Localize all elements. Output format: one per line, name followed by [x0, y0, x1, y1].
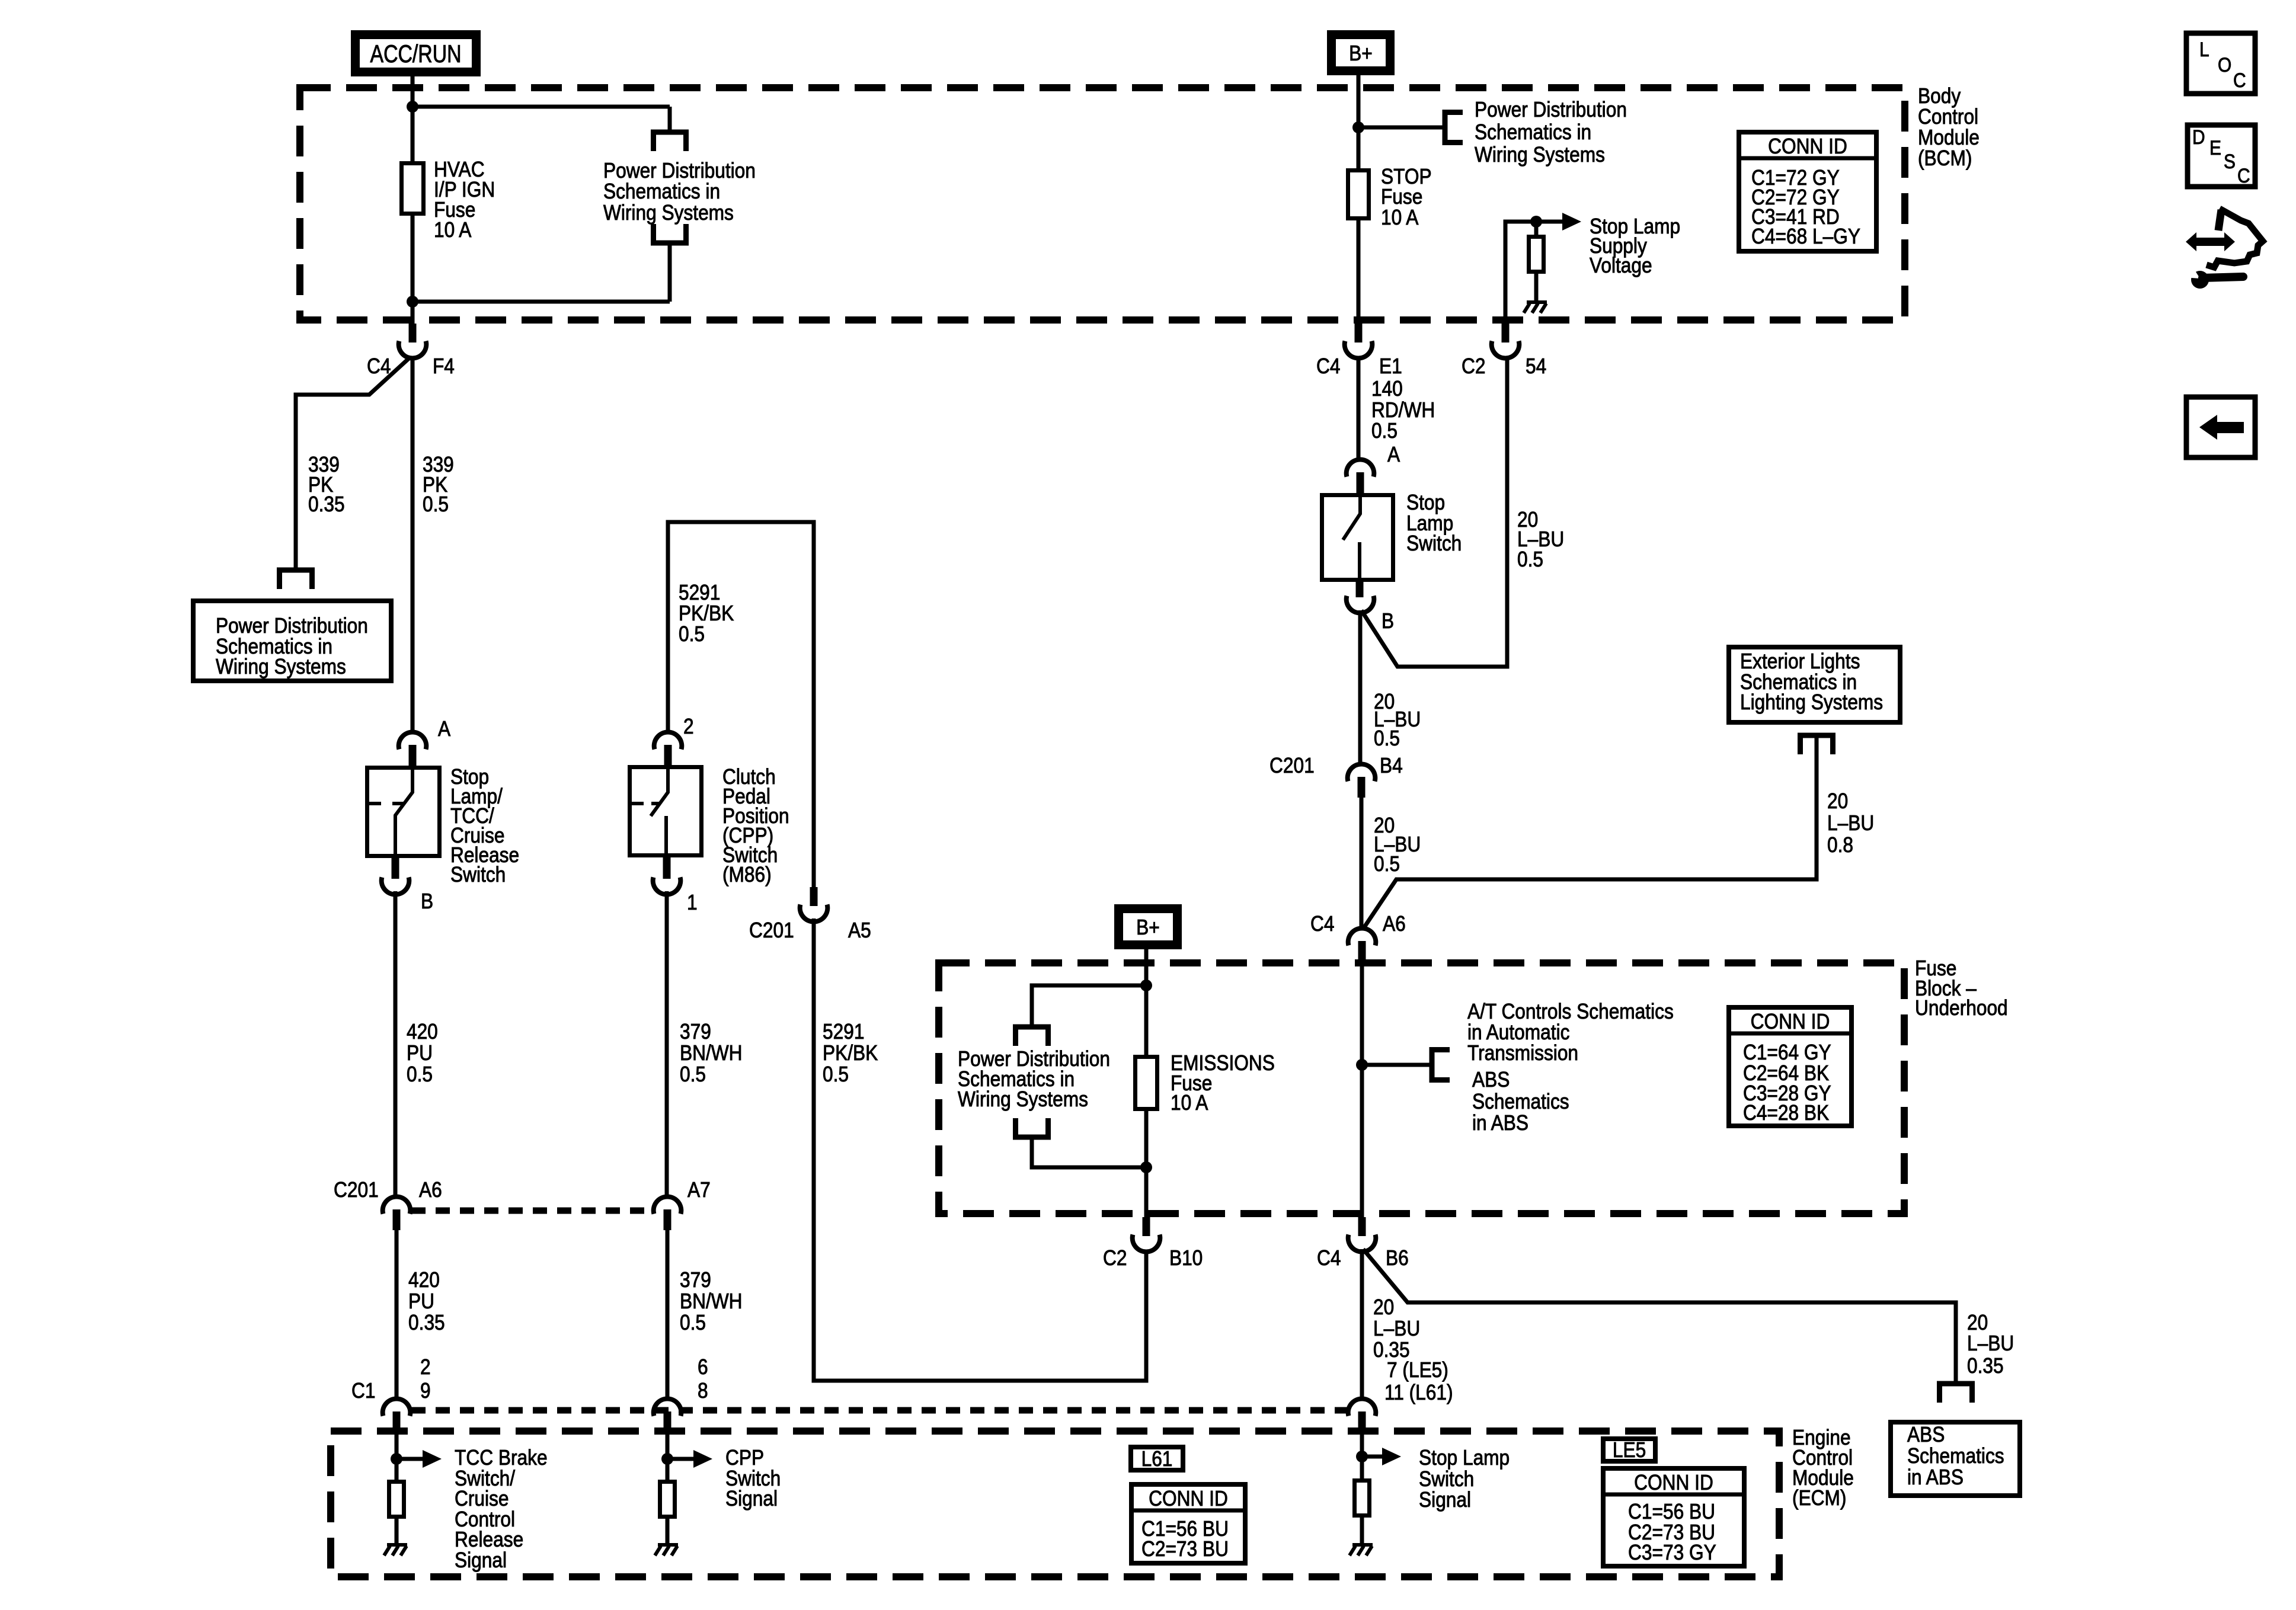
svg-text:C4=28 BK: C4=28 BK — [1743, 1101, 1830, 1125]
svg-text:Wiring Systems: Wiring Systems — [216, 655, 346, 678]
svg-text:O: O — [2218, 53, 2231, 76]
signal arrow CPP Switch Signal — [667, 1457, 693, 1461]
wire: 20 L-BU 0.5 branch from B to BCM pin 54 — [1361, 358, 1507, 667]
svg-text:Underhood: Underhood — [1915, 996, 2008, 1020]
svg-text:11 (L61): 11 (L61) — [1384, 1381, 1453, 1404]
svg-text:0.5: 0.5 — [823, 1062, 849, 1086]
svg-text:2: 2 — [683, 715, 694, 738]
connector 1 socket arc — [653, 878, 681, 895]
wire: B+ down to emissions fuse — [1144, 949, 1149, 1057]
svg-text:CONN ID: CONN ID — [1634, 1471, 1713, 1494]
svg-text:0.5: 0.5 — [1517, 548, 1543, 571]
wire: into ECM to CPP signal node — [666, 1432, 670, 1480]
connector C2/B10 pin — [1143, 1217, 1150, 1236]
svg-text:BN/WH: BN/WH — [680, 1041, 743, 1065]
svg-text:in ABS: in ABS — [1907, 1465, 1964, 1489]
junction node A/T controls branch — [1356, 1059, 1368, 1071]
off-page bracket (lower) Power Distribution in fuse block — [1016, 1118, 1048, 1137]
fuse: HVAC I/P IGN Fuse 10 A — [402, 164, 424, 214]
signal arrow Stop Lamp Switch Signal — [1362, 1455, 1382, 1459]
svg-text:A6: A6 — [1383, 912, 1406, 936]
wire: 140 RD/WH 0.5 from E1 to stop lamp switch — [1357, 358, 1361, 461]
svg-text:F4: F4 — [433, 354, 455, 378]
svg-text:C2: C2 — [1462, 354, 1485, 378]
off-page bracket below exterior lights box — [1801, 735, 1833, 754]
svg-text:C4: C4 — [1317, 1246, 1341, 1270]
svg-text:0.5: 0.5 — [1371, 419, 1398, 443]
connector C4/A6 pin — [1358, 941, 1366, 962]
svg-text:0.5: 0.5 — [679, 622, 705, 646]
switch fixed contact bar (right segment) — [651, 802, 661, 805]
svg-text:C4: C4 — [367, 354, 391, 378]
connector 2 pin — [664, 745, 672, 767]
svg-text:E: E — [2209, 136, 2221, 159]
junction node TCC brake signal — [391, 1453, 402, 1465]
junction node CPP signal — [661, 1453, 673, 1465]
svg-text:A7: A7 — [687, 1178, 711, 1202]
connector C1 pin (cavity 9) — [393, 1411, 401, 1432]
svg-text:C4=68 L–GY: C4=68 L–GY — [1751, 225, 1860, 248]
wire: STOP fuse output to BCM edge — [1357, 218, 1361, 324]
svg-text:Schematics: Schematics — [1907, 1444, 2004, 1468]
svg-text:S: S — [2224, 150, 2236, 172]
svg-text:6: 6 — [698, 1355, 708, 1379]
switch blade (closed) inside TCC switch — [395, 768, 412, 857]
off-page bracket above Power Distribution box (left) — [280, 570, 312, 589]
svg-text:Schematics: Schematics — [1472, 1090, 1569, 1113]
wire: branch right to power distribution bracket — [412, 105, 670, 109]
fuse: STOP Fuse 10 A — [1348, 171, 1369, 219]
svg-text:BN/WH: BN/WH — [680, 1289, 743, 1313]
connector 2 arc above CPP switch — [654, 732, 682, 750]
module box: Body Control Module (BCM) dashed outline — [300, 88, 1905, 320]
ground: CPP signal ground in ECM — [658, 1543, 678, 1547]
svg-text:C2: C2 — [1103, 1246, 1127, 1270]
svg-text:2: 2 — [420, 1355, 431, 1379]
connector C2/54 pin — [1502, 324, 1510, 343]
svg-text:7 (LE5): 7 (LE5) — [1387, 1358, 1448, 1382]
module box: Fuse Block - Underhood dashed outline — [939, 963, 1904, 1214]
icon: double arrow — [2186, 232, 2235, 251]
connector B socket arc — [382, 878, 410, 895]
svg-text:(BCM): (BCM) — [1918, 146, 1972, 170]
svg-text:Switch: Switch — [1406, 532, 1462, 555]
switch box: Stop Lamp/TCC/Cruise Release Switch — [367, 768, 440, 856]
junction node above emissions fuse — [1140, 980, 1152, 991]
module box: Engine Control Module (ECM) dashed outline — [331, 1431, 1779, 1577]
svg-text:0.35: 0.35 — [308, 492, 345, 516]
switch box: Stop Lamp Switch — [1322, 495, 1393, 580]
wire: emissions fuse output to fuse block edge — [1144, 1109, 1149, 1217]
connector C4/F4 pin — [409, 324, 417, 343]
connector C2/54 socket arc — [1492, 341, 1520, 359]
dotted connector line C1 across ECM — [411, 1407, 1349, 1414]
svg-text:10 A: 10 A — [1171, 1091, 1208, 1115]
svg-text:Switch: Switch — [450, 863, 506, 886]
svg-text:A: A — [1387, 443, 1400, 466]
svg-text:LE5: LE5 — [1613, 1438, 1646, 1462]
svg-text:54: 54 — [1526, 354, 1546, 378]
svg-text:C4: C4 — [1310, 912, 1334, 936]
svg-text:0.5: 0.5 — [680, 1311, 706, 1334]
wire: branch left to power distribution bracket (fuse block) — [1032, 985, 1146, 1027]
connector C2/B10 socket arc — [1133, 1235, 1160, 1252]
junction node supply voltage — [1530, 216, 1542, 228]
wire: bracket return to main feed — [668, 243, 672, 302]
svg-text:140: 140 — [1371, 377, 1403, 401]
wire: 379 BN/WH 0.5 down to C201 A7 — [665, 891, 669, 1198]
box: Power Distribution Schematics in Wiring Systems (left) — [193, 601, 391, 681]
fuse: EMISSIONS Fuse 10 A — [1136, 1057, 1157, 1109]
junction node below B+ — [1352, 121, 1364, 133]
svg-text:Wiring Systems: Wiring Systems — [603, 201, 734, 225]
connector C201/B4 arc — [1348, 764, 1376, 782]
svg-text:B+: B+ — [1349, 41, 1373, 65]
svg-text:Wiring Systems: Wiring Systems — [1475, 143, 1605, 167]
connector C4/B6 socket arc — [1348, 1235, 1376, 1252]
switch lower contact vertical — [1358, 542, 1361, 581]
ground: stop lamp signal ground in ECM — [1352, 1543, 1373, 1547]
switch fixed contact bar (left segment) — [369, 802, 381, 805]
table: BCM CONN ID (C1=72 GY ...) — [1739, 132, 1876, 251]
connector C1 pin (cavity 8) — [664, 1411, 671, 1432]
svg-text:20: 20 — [1373, 1295, 1394, 1319]
svg-text:B: B — [1382, 609, 1394, 633]
svg-text:D: D — [2192, 126, 2205, 148]
wire: 20 L-BU 0.35 from B6 down to ECM — [1360, 1249, 1364, 1400]
svg-text:C: C — [2233, 69, 2246, 91]
svg-text:420: 420 — [408, 1268, 440, 1292]
junction node at top of HVAC fuse branch — [407, 101, 418, 113]
wire: branch to A/T controls bracket — [1362, 1063, 1432, 1067]
svg-text:Stop Lamp: Stop Lamp — [1419, 1446, 1510, 1470]
svg-text:(M86): (M86) — [722, 863, 772, 886]
svg-text:A: A — [438, 717, 450, 741]
connector C201/A5 pin — [810, 887, 818, 906]
svg-text:L–BU: L–BU — [1827, 811, 1874, 835]
ground: TCC signal ground in ECM — [387, 1543, 407, 1547]
svg-text:B6: B6 — [1386, 1246, 1409, 1270]
box: Exterior Lights Schematics in Lighting Systems — [1729, 647, 1900, 722]
connector C4/B6 pin — [1358, 1217, 1366, 1236]
connector A arc above TCC switch — [399, 732, 427, 750]
wire: resistor to BCM internal ground — [1534, 274, 1539, 302]
svg-text:10 A: 10 A — [434, 218, 472, 242]
off-page bracket (upper) Power Distribution in BCM — [654, 132, 686, 151]
svg-text:L: L — [2199, 38, 2209, 60]
svg-text:C1: C1 — [351, 1379, 375, 1403]
switch blade (open) inside stop lamp switch — [1343, 495, 1360, 540]
connector C201/A5 socket arc — [800, 905, 828, 922]
wire: stop lamp supply voltage sense from pin 54 — [1505, 222, 1562, 343]
tag box: LE5 — [1603, 1439, 1655, 1461]
connector B pin below stop lamp switch — [1356, 581, 1364, 597]
svg-text:Signal: Signal — [1419, 1488, 1471, 1512]
wire: resistor to ground — [1360, 1518, 1364, 1545]
svg-text:420: 420 — [407, 1020, 438, 1044]
junction node below HVAC fuse — [407, 296, 418, 308]
connector A pin — [409, 745, 417, 767]
wire: junction down to sense resistor — [1534, 222, 1539, 237]
off-page bracket above ABS box — [1940, 1384, 1972, 1403]
svg-text:PK/BK: PK/BK — [823, 1041, 878, 1065]
resistor: CPP signal pull-up — [660, 1482, 675, 1517]
off-page bracket Power Distribution (BCM right) — [1445, 113, 1463, 143]
svg-text:CONN ID: CONN ID — [1149, 1487, 1228, 1510]
box: ABS Schematics in ABS — [1891, 1422, 2020, 1496]
switch fixed contact bar (left segment) — [631, 802, 644, 805]
connector B socket arc — [1347, 596, 1374, 613]
tag box: L61 — [1131, 1447, 1183, 1470]
wire: 20 L-BU 0.5 from B4 down to fuse block A6 — [1360, 798, 1364, 930]
signal arrow TCC Brake Switch — [396, 1457, 423, 1461]
wire: ACC/RUN feed down into BCM — [411, 76, 415, 164]
svg-text:ACC/RUN: ACC/RUN — [370, 40, 462, 68]
svg-text:Lighting Systems: Lighting Systems — [1740, 690, 1883, 714]
wire: 20 L-BU 0.5 from B down to C201 B4 — [1358, 610, 1363, 766]
switch box: Clutch Pedal Position (CPP) Switch (M86) — [630, 767, 702, 856]
connector C201/A7 pin — [664, 1209, 671, 1230]
wire: 20 L-BU 0.35 branch to ABS — [1363, 1249, 1956, 1384]
svg-text:0.8: 0.8 — [1827, 833, 1853, 857]
svg-text:Signal: Signal — [455, 1548, 507, 1572]
wire: 5291 PK/BK from A5 down, across to emissions fuse leg — [814, 918, 1146, 1381]
signal arrow Stop Lamp Supply Voltage — [1562, 213, 1581, 231]
icon: back arrow button — [2186, 397, 2255, 457]
svg-text:Schematics in: Schematics in — [1475, 120, 1591, 144]
svg-text:C: C — [2237, 164, 2250, 187]
connector A pin — [1357, 472, 1364, 494]
off-page bracket (upper) Power Distribution in fuse block — [1016, 1027, 1048, 1046]
svg-text:C3=73 GY: C3=73 GY — [1628, 1541, 1716, 1564]
svg-text:0.5: 0.5 — [1374, 726, 1400, 750]
svg-text:Signal: Signal — [725, 1487, 778, 1510]
svg-text:0.35: 0.35 — [1967, 1354, 2004, 1378]
resistor: stop lamp supply sense (BCM) — [1529, 237, 1544, 272]
icon: part outline polyline — [2218, 210, 2221, 231]
table: Fuse Block CONN ID (C1=64 GY ...) — [1729, 1007, 1851, 1126]
svg-text:L61: L61 — [1141, 1447, 1173, 1471]
svg-text:C201: C201 — [334, 1178, 379, 1202]
svg-text:B4: B4 — [1380, 754, 1403, 777]
wire: branch to power distribution bracket (BCM) — [1358, 126, 1445, 130]
svg-text:E1: E1 — [1379, 354, 1402, 378]
wire: A6 into fuse block to junction — [1360, 962, 1364, 1067]
svg-text:in ABS: in ABS — [1472, 1111, 1528, 1135]
svg-text:B: B — [421, 889, 433, 913]
connector C4/A6 arc (fuse block) — [1348, 929, 1376, 946]
icon: wrench — [2191, 271, 2209, 289]
wire: into ECM to stop lamp signal node — [1360, 1432, 1364, 1480]
svg-text:10 A: 10 A — [1381, 206, 1419, 229]
connector 1 pin below CPP switch — [663, 857, 671, 879]
wire: fuse output down to BCM edge — [411, 213, 415, 324]
wire: bracket return to fuse output — [1032, 1137, 1146, 1167]
connector ECM pin arc (stop lamp switch signal) — [1348, 1399, 1376, 1416]
power feed box ACC/RUN — [356, 35, 477, 72]
wire: 379 BN/WH 0.5 from C201 to ECM C1 — [666, 1230, 670, 1400]
table: L61 CONN ID — [1131, 1484, 1245, 1563]
svg-text:Voltage: Voltage — [1590, 254, 1652, 277]
svg-text:9: 9 — [420, 1379, 431, 1403]
junction node below emissions fuse — [1140, 1161, 1152, 1173]
resistor: stop lamp signal pull-up (ECM) — [1355, 1481, 1370, 1516]
connector C1 arc (CPP signal) — [654, 1399, 682, 1416]
connector C201/A6 arc — [383, 1197, 411, 1214]
svg-text:L–BU: L–BU — [1967, 1331, 2014, 1355]
wire: C4 branch diagonal to 339 PK 0.35 — [296, 357, 411, 570]
connector ECM pin 7/11 — [1358, 1411, 1366, 1432]
wire: resistor to ground — [666, 1519, 670, 1545]
wire: down to C4/B6 — [1360, 1065, 1364, 1217]
svg-text:CONN ID: CONN ID — [1768, 135, 1847, 158]
switch lower contact vertical — [664, 816, 668, 857]
svg-text:C201: C201 — [1269, 754, 1315, 777]
svg-text:Transmission: Transmission — [1467, 1041, 1578, 1065]
power feed box B+ (fuse block) — [1119, 909, 1178, 945]
wire: into ECM to TCC brake signal node — [395, 1432, 399, 1480]
svg-text:0.5: 0.5 — [407, 1062, 433, 1086]
svg-text:B10: B10 — [1169, 1246, 1203, 1270]
connector C201/B4 pin — [1358, 777, 1366, 798]
wire: F4 down to stop lamp/TCC switch, 339 PK 0.5 — [411, 357, 415, 734]
icon: LOC button — [2186, 33, 2255, 94]
wire: B+ down into BCM — [1357, 75, 1361, 171]
svg-text:C4: C4 — [1316, 354, 1340, 378]
connector C4/F4 socket arc — [399, 341, 427, 359]
svg-text:Power Distribution: Power Distribution — [1475, 98, 1627, 121]
svg-text:(ECM): (ECM) — [1792, 1486, 1846, 1510]
svg-text:Schematics in: Schematics in — [603, 180, 720, 203]
off-page bracket (lower) Power Distribution in BCM — [654, 224, 686, 243]
connector C201/A6 pin — [393, 1209, 401, 1230]
connector A arc above stop lamp switch — [1347, 460, 1374, 477]
svg-text:0.35: 0.35 — [408, 1311, 445, 1334]
svg-text:ABS: ABS — [1907, 1423, 1945, 1446]
svg-text:0.5: 0.5 — [1374, 852, 1400, 876]
connector B pin below TCC switch — [392, 857, 399, 879]
wire: resistor to ground — [395, 1519, 399, 1545]
ground: BCM internal ground — [1527, 300, 1547, 304]
power feed box B+ (top) — [1332, 35, 1390, 71]
svg-text:PU: PU — [407, 1041, 433, 1065]
connector C201/A7 arc — [654, 1197, 682, 1214]
resistor: TCC brake signal pull-up — [389, 1482, 404, 1517]
svg-text:CONN ID: CONN ID — [1751, 1010, 1830, 1033]
svg-text:PU: PU — [408, 1289, 434, 1313]
svg-text:5291: 5291 — [823, 1020, 864, 1044]
connector C4/E1 socket arc — [1345, 341, 1373, 359]
svg-text:379: 379 — [680, 1020, 711, 1044]
svg-text:A6: A6 — [419, 1178, 442, 1202]
svg-text:379: 379 — [680, 1268, 711, 1292]
dotted connector line C201 between A6 and A7 — [411, 1208, 653, 1214]
svg-text:0.5: 0.5 — [680, 1062, 706, 1086]
switch fixed contact bar (right segment) — [392, 802, 404, 805]
svg-text:Wiring Systems: Wiring Systems — [958, 1087, 1088, 1111]
connector C1 arc (TCC brake signal) — [383, 1399, 411, 1416]
svg-text:20: 20 — [1827, 789, 1848, 813]
svg-text:A5: A5 — [848, 918, 871, 942]
svg-text:B+: B+ — [1136, 916, 1160, 939]
svg-text:1: 1 — [687, 891, 698, 914]
svg-text:8: 8 — [698, 1379, 708, 1403]
table: LE5 CONN ID — [1603, 1468, 1744, 1566]
wire: 420 PU 0.35 from C201 to ECM C1 — [395, 1230, 399, 1400]
svg-text:0.5: 0.5 — [423, 492, 449, 516]
svg-text:C201: C201 — [749, 918, 794, 942]
svg-text:L–BU: L–BU — [1373, 1317, 1420, 1340]
wire: 5291 PK/BK loop top (CPP pin 2 up and over) — [668, 522, 814, 889]
icon: DESC button — [2188, 125, 2255, 187]
svg-text:ABS: ABS — [1472, 1068, 1510, 1092]
switch blade (open) inside CPP switch — [651, 767, 668, 816]
junction node stop lamp switch signal — [1356, 1451, 1368, 1462]
connector C4/E1 pin — [1355, 324, 1363, 343]
off-page bracket A/T Controls / ABS — [1432, 1050, 1450, 1080]
svg-text:C2=73 BU: C2=73 BU — [1141, 1537, 1229, 1561]
wire: 20 L-BU 0.8 from exterior lights to A6 — [1364, 735, 1817, 928]
wire: 420 PU 0.5 from switch B to C201 A6 — [394, 891, 398, 1198]
